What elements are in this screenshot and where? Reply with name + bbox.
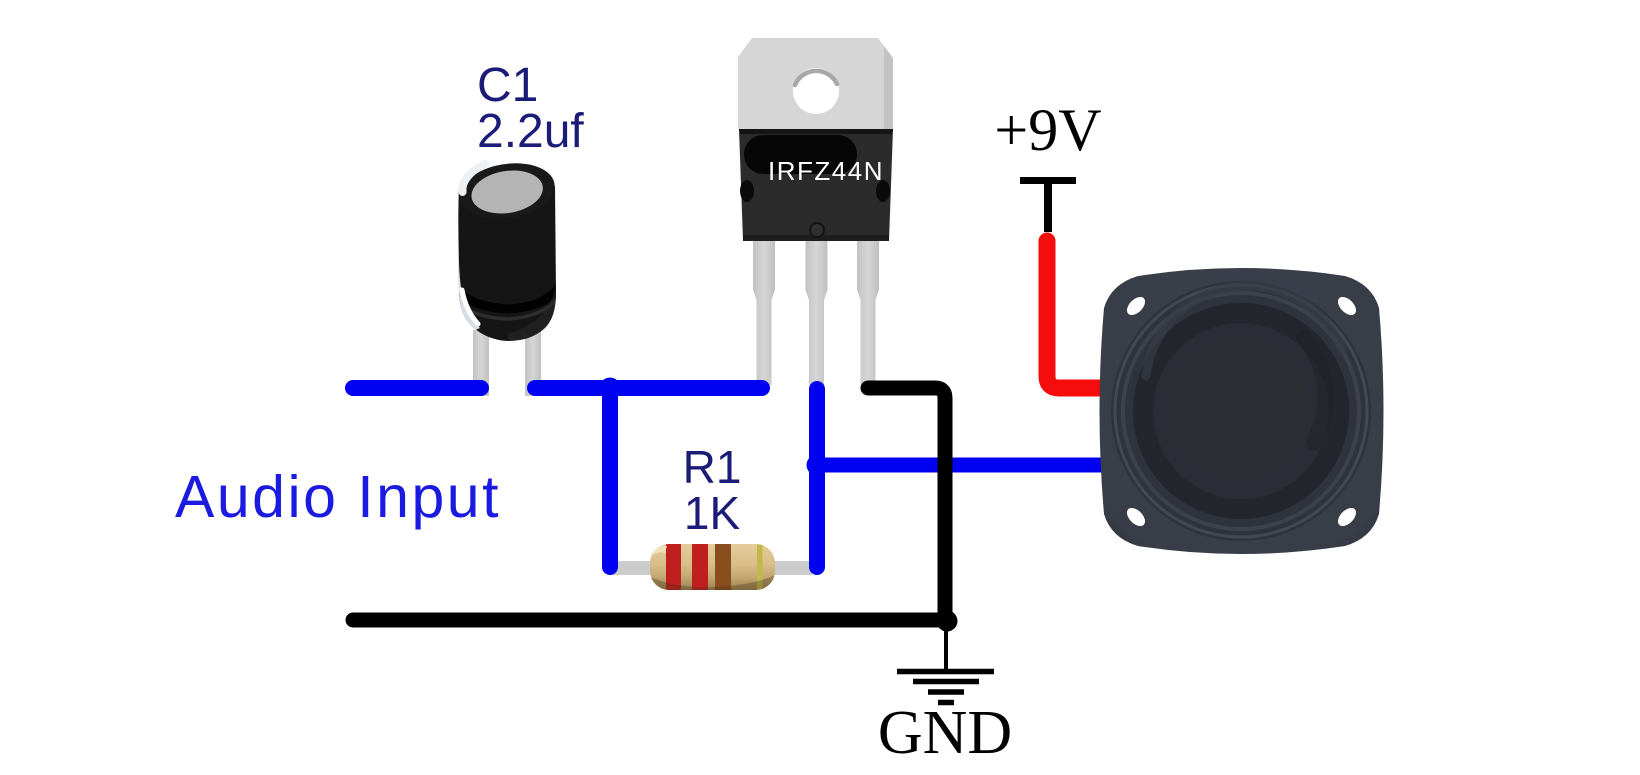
transistor Q1 legs (drain, gate, source) bbox=[753, 240, 879, 385]
label C1 2.2uf bbox=[477, 59, 584, 158]
transistor Q1 IRFZ44N body bbox=[738, 38, 893, 241]
battery terminal symbol bbox=[1020, 177, 1076, 232]
svg-text:GND: GND bbox=[878, 699, 1012, 767]
capacitor C1 body bbox=[454, 154, 560, 341]
band 2 (red) bbox=[692, 540, 708, 594]
wire: blue capacitor to MOSFET drain segment bbox=[535, 380, 762, 396]
wire: red +9V supply to speaker positive bbox=[1047, 241, 1110, 388]
mounting holes bbox=[1124, 294, 1149, 319]
wire: black source to ground rail bbox=[868, 388, 945, 615]
band 3 (brown) bbox=[715, 540, 731, 594]
svg-text:2.2uf: 2.2uf bbox=[477, 105, 584, 158]
node ground junction bbox=[937, 611, 958, 632]
wire: blue vertical to resistor left bbox=[602, 392, 618, 567]
wire: blue audio input segment (left) bbox=[353, 380, 481, 396]
svg-text:+9V: +9V bbox=[994, 97, 1101, 163]
resistor R1 body bbox=[650, 540, 775, 595]
band 1 (red) bbox=[666, 540, 681, 594]
speaker LS1 bbox=[1100, 268, 1384, 554]
label R1 1K bbox=[683, 441, 742, 539]
svg-text:IRFZ44N: IRFZ44N bbox=[768, 156, 884, 186]
band 4 (gold) bbox=[757, 540, 763, 594]
capacitor C1 legs bbox=[473, 330, 541, 396]
wire: blue vertical gate to resistor right bbox=[809, 389, 825, 567]
ground symbol bbox=[897, 624, 994, 703]
svg-text:1K: 1K bbox=[684, 487, 741, 539]
node junction gate/speaker wire bbox=[807, 455, 828, 476]
wire: blue to speaker negative terminal bbox=[817, 458, 1110, 473]
svg-text:R1: R1 bbox=[683, 441, 742, 493]
node junction on input wire bbox=[600, 378, 621, 399]
svg-text:Audio Input: Audio Input bbox=[175, 464, 501, 530]
wire: black bottom ground rail bbox=[353, 613, 945, 628]
resistor R1 leads bbox=[612, 561, 812, 575]
